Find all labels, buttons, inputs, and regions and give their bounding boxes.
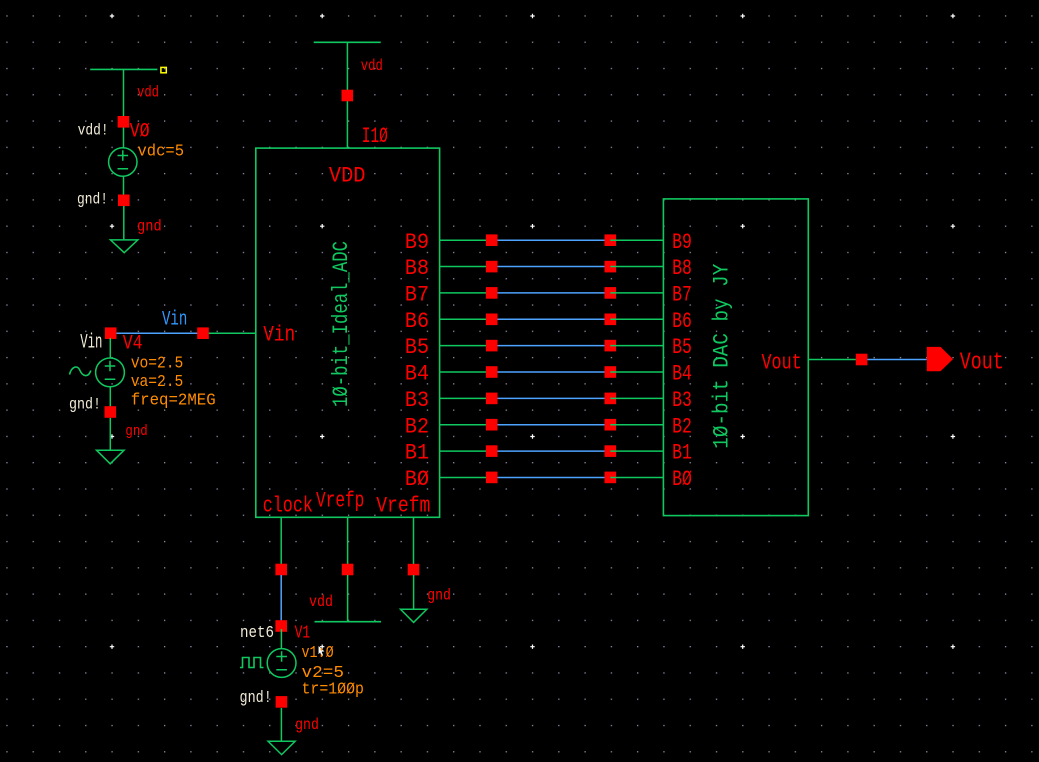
- pin square Vin (source side): [105, 327, 117, 339]
- svg-text:B1: B1: [405, 441, 429, 466]
- svg-text:vdd: vdd: [309, 593, 333, 611]
- svg-text:B2: B2: [405, 414, 429, 439]
- svg-text:gnd!: gnd!: [69, 396, 101, 414]
- svg-text:BØ: BØ: [672, 467, 692, 492]
- wire Vrefp to vdd bar: [347, 575, 349, 622]
- pin square B0 (ADC side): [486, 472, 498, 484]
- svg-text:V1: V1: [295, 623, 311, 643]
- pin square B4 (DAC side): [605, 366, 617, 378]
- wire Vrefp stub from ADC: [347, 517, 349, 569]
- svg-text:I1Ø: I1Ø: [362, 124, 388, 149]
- svg-text:B1: B1: [672, 441, 692, 466]
- svg-text:V4: V4: [123, 333, 143, 356]
- wire DAC B4 stub: [610, 371, 663, 373]
- net wire Vout: [867, 359, 927, 361]
- vdd supply symbol bar (I10): [314, 41, 381, 43]
- pin square B5 (DAC side): [605, 340, 617, 352]
- svg-text:v1:Ø: v1:Ø: [302, 644, 334, 663]
- svg-text:BØ: BØ: [405, 467, 429, 492]
- svg-text:clock: clock: [263, 494, 313, 519]
- svg-text:B5: B5: [405, 335, 429, 360]
- voltage source V1 (pulse): [267, 649, 296, 678]
- pin square V0 minus (gnd!): [118, 195, 130, 207]
- svg-text:gnd: gnd: [125, 423, 147, 440]
- wire DAC B2 stub: [610, 424, 663, 426]
- wire ADC B0 stub: [440, 476, 492, 478]
- pin square B6 (DAC side): [605, 314, 617, 326]
- wire ADC B6 stub: [440, 318, 492, 320]
- pin square Vrefm: [408, 564, 420, 576]
- svg-text:freq=2MEG: freq=2MEG: [131, 392, 216, 411]
- net wire B9: [498, 239, 605, 241]
- svg-text:VØ: VØ: [130, 121, 150, 144]
- svg-text:B7: B7: [672, 283, 692, 308]
- svg-text:vdd: vdd: [361, 57, 383, 75]
- wire DAC B0 stub: [610, 476, 663, 478]
- pin square B9 (DAC side): [605, 234, 617, 246]
- svg-text:vdd: vdd: [137, 84, 159, 102]
- svg-text:vdc=5: vdc=5: [138, 143, 185, 162]
- wire ADC B1 stub: [440, 450, 492, 452]
- ground symbol (V0): [111, 240, 138, 253]
- wire DAC B9 stub: [610, 239, 663, 241]
- net wire B6: [498, 318, 605, 320]
- sine wave symbol: [70, 367, 91, 376]
- net wire net6 (clock): [280, 575, 282, 622]
- wire Vout stub from DAC: [808, 359, 856, 361]
- svg-text:Vout: Vout: [960, 349, 1004, 376]
- svg-text:Vin: Vin: [263, 323, 295, 348]
- wire V4 plus: [109, 338, 111, 358]
- pin square B1 (ADC side): [486, 445, 498, 457]
- svg-text:va=2.5: va=2.5: [131, 373, 184, 392]
- wire clock stub from ADC: [280, 517, 282, 569]
- svg-text:net6: net6: [240, 624, 274, 643]
- pin square B7 (ADC side): [486, 287, 498, 299]
- svg-text:Vrefp: Vrefp: [316, 488, 364, 513]
- wire V1 minus to ground: [280, 708, 282, 741]
- wire V0 minus to ground: [123, 206, 125, 240]
- pin square B4 (ADC side): [486, 366, 498, 378]
- ground symbol (V1): [268, 741, 295, 754]
- pin square V1 minus (gnd!): [276, 696, 288, 708]
- net wire B8: [498, 266, 605, 268]
- svg-text:B9: B9: [672, 230, 692, 255]
- net wire B3: [498, 397, 605, 399]
- svg-text:B6: B6: [405, 309, 429, 334]
- pin square B9 (ADC side): [486, 234, 498, 246]
- svg-text:B3: B3: [672, 388, 692, 413]
- pin square V4 minus (gnd!): [105, 406, 117, 418]
- svg-text:B9: B9: [405, 230, 429, 255]
- net wire B7: [498, 292, 605, 294]
- net wire B4: [498, 371, 605, 373]
- wire Vrefm to ground: [413, 575, 415, 609]
- output pin symbol Vout: [927, 347, 953, 371]
- svg-text:B5: B5: [672, 335, 692, 360]
- wire V4 minus to pin: [109, 387, 111, 408]
- net wire B2: [498, 424, 605, 426]
- wire DAC B8 stub: [610, 266, 663, 268]
- wire ADC B7 stub: [440, 292, 492, 294]
- svg-text:B2: B2: [672, 414, 692, 439]
- wire ADC B5 stub: [440, 345, 492, 347]
- DAC block 10-bit DAC by JY: [663, 199, 808, 516]
- wire V1 plus: [280, 629, 282, 649]
- mouse cursor: [319, 646, 325, 656]
- svg-text:Vrefm: Vrefm: [376, 494, 430, 519]
- wire DAC B1 stub: [610, 450, 663, 452]
- svg-text:gnd: gnd: [137, 218, 162, 236]
- pin square B3 (ADC side): [486, 393, 498, 405]
- svg-text:B8: B8: [672, 256, 692, 281]
- svg-text:B4: B4: [405, 362, 429, 387]
- svg-text:Vout: Vout: [762, 350, 802, 375]
- wire Vin stub to ADC: [203, 332, 256, 334]
- svg-text:Vin: Vin: [80, 332, 102, 355]
- wire DAC B3 stub: [610, 397, 663, 399]
- svg-text:B4: B4: [672, 362, 692, 387]
- yellow selection square: [161, 67, 166, 72]
- svg-text:gnd!: gnd!: [240, 689, 272, 708]
- pin square Vin (ADC side): [197, 327, 209, 339]
- wire ADC B2 stub: [440, 424, 492, 426]
- pin square V0 plus (vdd!): [118, 116, 130, 128]
- pin square Vout: [856, 354, 868, 366]
- pin square B1 (DAC side): [605, 445, 617, 457]
- wire ADC B9 stub: [440, 239, 492, 241]
- vdd supply symbol bar (V0): [90, 68, 157, 70]
- pin square B2 (DAC side): [605, 419, 617, 431]
- svg-text:B8: B8: [405, 256, 429, 281]
- svg-text:gnd: gnd: [295, 716, 319, 734]
- pin square B5 (ADC side): [486, 340, 498, 352]
- svg-text:vo=2.5: vo=2.5: [131, 355, 184, 374]
- ground symbol (V4): [97, 450, 125, 464]
- wire ADC B3 stub: [440, 397, 492, 399]
- pin square B6 (ADC side): [486, 314, 498, 326]
- svg-text:vdd!: vdd!: [78, 121, 109, 139]
- pulse wave symbol: [240, 658, 264, 668]
- wire vdd bar to V0 plus: [123, 69, 125, 148]
- wire V0 minus to pin: [123, 176, 125, 196]
- pin square VDD net: [342, 90, 354, 102]
- pin square B8 (ADC side): [486, 261, 498, 273]
- wire ADC B8 stub: [440, 266, 492, 268]
- svg-text:B7: B7: [405, 283, 429, 308]
- vdd supply symbol bar (Vrefp): [315, 621, 382, 623]
- pin square Vrefp: [342, 564, 354, 576]
- wire vdd to ADC VDD pin: [346, 42, 348, 148]
- svg-text:1Ø-bit DAC by JY: 1Ø-bit DAC by JY: [710, 264, 735, 449]
- pin square B0 (DAC side): [605, 472, 617, 484]
- pin square clock (ADC side): [275, 564, 287, 576]
- svg-text:B6: B6: [672, 309, 692, 334]
- wire Vrefm stub from ADC: [413, 517, 415, 569]
- voltage source V0: [109, 148, 137, 176]
- wire ADC B4 stub: [440, 371, 492, 373]
- wire V4 minus to ground: [109, 418, 111, 450]
- svg-text:tr=1ØØp: tr=1ØØp: [302, 680, 364, 699]
- net wire B0: [498, 476, 605, 478]
- svg-text:VDD: VDD: [329, 163, 366, 188]
- pin square B8 (DAC side): [605, 261, 617, 273]
- pin square B2 (ADC side): [486, 419, 498, 431]
- net wire B5: [498, 345, 605, 347]
- svg-text:gnd: gnd: [427, 587, 451, 605]
- svg-text:Vin: Vin: [162, 308, 187, 331]
- svg-text:B3: B3: [405, 388, 429, 413]
- svg-text:1Ø-bit_Ideal_ADC: 1Ø-bit_Ideal_ADC: [329, 241, 354, 407]
- ground symbol (Vrefm): [401, 609, 427, 622]
- pin square B3 (DAC side): [605, 393, 617, 405]
- ADC block 10-bit_Ideal_ADC (I10): [256, 148, 440, 517]
- voltage source V4 (sine): [96, 358, 125, 387]
- wire DAC B7 stub: [610, 292, 663, 294]
- net wire B1: [498, 450, 605, 452]
- net wire Vin: [111, 332, 203, 334]
- wire DAC B5 stub: [610, 345, 663, 347]
- pin square B7 (DAC side): [605, 287, 617, 299]
- svg-text:gnd!: gnd!: [77, 191, 108, 209]
- wire DAC B6 stub: [610, 318, 663, 320]
- pin square net6 (V1 side): [275, 620, 287, 632]
